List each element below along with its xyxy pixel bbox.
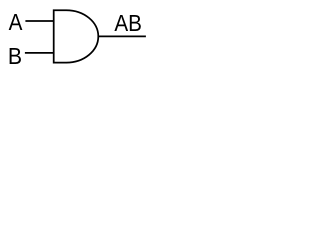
wire input A: [25, 20, 54, 22]
svg-text:AB: AB: [114, 10, 142, 36]
AND gate U1: [54, 10, 99, 62]
svg-text:B: B: [8, 43, 22, 69]
wire input B: [25, 52, 54, 54]
wire output: [98, 35, 146, 37]
svg-text:A: A: [9, 9, 23, 35]
